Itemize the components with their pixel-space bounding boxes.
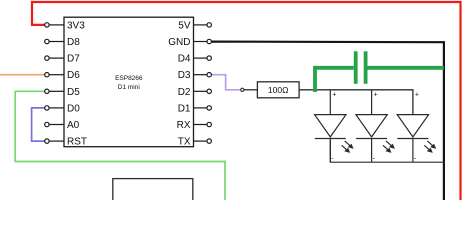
svg-text:D1: D1	[178, 103, 191, 114]
svg-text:D7: D7	[67, 54, 80, 65]
wire anode bus from resistor to LED3	[299, 90, 413, 114]
svg-text:D1 mini: D1 mini	[118, 84, 140, 91]
pin D0	[45, 103, 81, 114]
resistor R1 100ohm	[257, 82, 299, 98]
pin D3	[178, 70, 212, 81]
svg-text:3V3: 3V3	[67, 20, 85, 31]
svg-text:A0: A0	[67, 120, 80, 131]
LED D1	[315, 90, 354, 163]
svg-text:D3: D3	[178, 70, 191, 81]
pin D5	[45, 87, 81, 98]
svg-text:D8: D8	[67, 37, 80, 48]
wire orange D6	[0, 74, 45, 76]
wire green D5 to bottom	[15, 91, 225, 200]
pin D1	[178, 103, 212, 114]
pin 3V3	[45, 20, 86, 31]
svg-text:D0: D0	[67, 103, 80, 114]
wire blue D0 to RST	[32, 108, 45, 141]
wire black GND to right rail	[212, 42, 444, 200]
svg-text:-: -	[373, 156, 376, 163]
svg-text:+: +	[374, 91, 378, 98]
svg-text:D4: D4	[178, 54, 191, 65]
pin D8	[45, 37, 81, 48]
pin D6	[45, 70, 81, 81]
component box bottom	[113, 179, 193, 205]
pin A0	[45, 120, 80, 131]
IC U1 ESP8266 D1 mini body	[64, 17, 194, 147]
pin D7	[45, 54, 81, 65]
svg-text:+: +	[332, 91, 336, 98]
pin D4	[178, 54, 212, 65]
svg-text:RX: RX	[177, 120, 191, 131]
pin RX	[177, 120, 212, 131]
pin TX	[178, 137, 212, 148]
svg-text:TX: TX	[178, 137, 191, 148]
svg-text:D6: D6	[67, 70, 80, 81]
svg-text:ESP8266: ESP8266	[115, 75, 143, 82]
wire cathode bus to GND rail	[330, 140, 444, 162]
node bendpoint at resistor input	[241, 88, 244, 91]
svg-text:+: +	[415, 91, 419, 98]
pin RST	[45, 137, 87, 148]
pin 5V	[178, 20, 211, 31]
wire resistor left lead	[244, 89, 258, 91]
LED D3	[397, 91, 436, 162]
svg-text:GND: GND	[168, 37, 190, 48]
svg-text:D2: D2	[178, 87, 191, 98]
capacitor C1 green network	[315, 51, 444, 92]
svg-text:100Ω: 100Ω	[268, 85, 289, 95]
pin D2	[178, 87, 212, 98]
LED D2	[356, 90, 395, 163]
svg-text:D5: D5	[67, 87, 80, 98]
svg-text:-: -	[331, 156, 334, 163]
svg-text:-: -	[414, 156, 417, 163]
svg-text:5V: 5V	[178, 20, 191, 31]
svg-text:RST: RST	[67, 137, 87, 148]
wire red 3V3 to +rail top	[32, 2, 461, 200]
pin GND	[168, 37, 211, 48]
wire purple D3 to resistor	[212, 75, 241, 90]
